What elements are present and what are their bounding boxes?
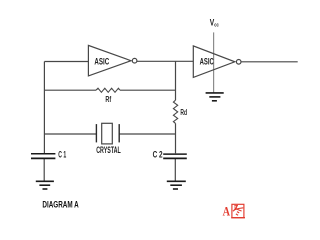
- label A (red): [223, 203, 231, 218]
- op-amp U1 inverter ASIC: [88, 45, 137, 76]
- wire C2 to ground: [174, 159, 176, 181]
- svg-text:cc: cc: [214, 22, 219, 28]
- wire Rf right: [120, 89, 176, 91]
- ground under C2: [167, 181, 186, 189]
- resistor Rd: [173, 100, 187, 123]
- svg-text:Rd: Rd: [180, 108, 187, 117]
- wire right vertical node X2 lower: [175, 123, 177, 153]
- svg-text:DIAGRAM A: DIAGRAM A: [42, 198, 78, 209]
- capacitor C1: [31, 149, 66, 159]
- wire Vcc through line: [213, 32, 215, 92]
- ground under inverter U2: [206, 93, 224, 101]
- svg-text:C 1: C 1: [58, 149, 66, 159]
- power Vcc label: [210, 17, 219, 28]
- wire input left vertical node X1: [43, 62, 45, 154]
- label CJK tu character (red): [231, 204, 245, 217]
- wire C1 to ground: [43, 159, 45, 181]
- svg-text:Rf: Rf: [105, 95, 111, 104]
- resistor Rf: [96, 88, 120, 104]
- crystal Y1: [96, 123, 121, 155]
- svg-text:C 2: C 2: [153, 150, 163, 160]
- wire right vertical node X2 upper: [175, 61, 177, 100]
- ground under C1: [36, 181, 54, 189]
- op-amp U2 inverter ASIC: [193, 46, 241, 78]
- svg-text:ASIC: ASIC: [94, 56, 109, 66]
- wire crystal right: [119, 133, 175, 135]
- wire inverter1 input: [44, 61, 88, 63]
- capacitor C2: [153, 150, 187, 160]
- svg-text:ASIC: ASIC: [200, 57, 214, 67]
- wire inverter2 output: [242, 61, 298, 63]
- wire Rf left: [44, 89, 96, 91]
- wire inverter1 output to inverter2 input: [137, 60, 193, 62]
- svg-text:A: A: [223, 203, 231, 218]
- label DIAGRAM A: [42, 198, 78, 209]
- wire crystal left: [44, 133, 96, 135]
- svg-text:CRYSTAL: CRYSTAL: [96, 145, 121, 155]
